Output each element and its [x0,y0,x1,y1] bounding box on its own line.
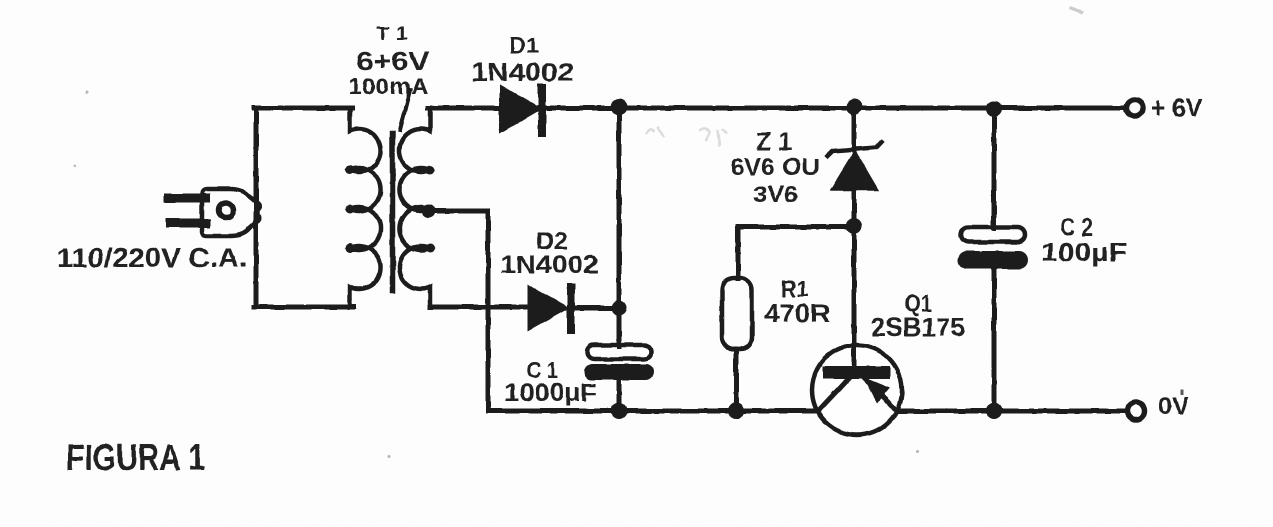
svg-text:FIGURA 1: FIGURA 1 [66,437,205,478]
svg-text:1N4002: 1N4002 [500,251,599,279]
wire zener to R1 [738,227,854,279]
transformer T1 secondary winding [399,108,434,307]
wire R1 to bottom rail [734,349,739,411]
node center tap [422,204,436,218]
transformer T1 core [390,133,396,291]
svg-text:D1: D1 [509,33,539,58]
node D2 cathode [611,300,627,316]
pencil smudge near Z1 [646,128,726,145]
svg-text:110/220V C.A.: 110/220V C.A. [57,243,247,273]
label T1 6+6V 100mA [348,24,430,130]
wire bottom rail [488,409,1124,414]
wire top rail [428,106,1123,111]
wire center tap to bottom rail [429,211,488,411]
svg-text:470R: 470R [764,300,830,328]
svg-text:2SB175: 2SB175 [871,312,965,342]
svg-text:0V: 0V [1158,393,1189,420]
svg-text:1000µF: 1000µF [504,379,597,407]
capacitor C1 [584,345,654,380]
svg-text:Z 1: Z 1 [756,128,792,156]
svg-text:+ 6V: + 6V [1151,93,1202,123]
label C1 1000uF [504,357,597,407]
node bottom rail C2 [986,403,1002,419]
label D2 1N4002 [500,228,599,279]
svg-text:T 1: T 1 [376,24,409,45]
svg-text:100µF: 100µF [1041,237,1127,267]
node top rail C2 [986,101,1002,117]
transistor Q1 [812,345,902,435]
wire plug loop top [254,106,352,111]
resistor R1 [722,278,752,349]
node top rail D column [611,99,627,115]
zener Z1 [827,142,881,190]
transformer T1 primary winding [346,108,381,307]
terminal +6V [1126,93,1202,123]
wire zener branch [852,108,857,366]
label D1 1N4002 [471,33,574,87]
wire rectifier column [617,108,622,411]
wire plug loop bottom [254,305,354,310]
AC plug P1 [168,189,259,236]
terminal 0V [1128,393,1190,420]
label C2 100uF [1041,214,1127,267]
label R1 470R [764,276,830,328]
node bottom rail R1 [728,403,744,419]
wire C2 branch [992,108,997,411]
node zener R1 [846,218,862,234]
label Q1 2SB175 [871,290,965,342]
wire secondary bottom to D2 [430,305,529,310]
label Z1 6V6 OU 3V6 [730,128,820,207]
svg-text:1N4002: 1N4002 [471,57,574,87]
svg-text:6V6 OU: 6V6 OU [730,154,820,181]
diode D1 [501,87,542,133]
svg-text:100mA: 100mA [348,73,429,99]
svg-text:R1: R1 [781,276,808,302]
node bottom rail C1 [611,403,627,419]
svg-text:6+6V: 6+6V [356,46,430,76]
scan speck marks [74,6,1185,459]
wire plug loop left [254,108,259,307]
diode D2 [529,287,619,330]
svg-text:3V6: 3V6 [753,181,798,207]
capacitor C2 [958,227,1028,269]
node top rail zener [846,99,862,115]
